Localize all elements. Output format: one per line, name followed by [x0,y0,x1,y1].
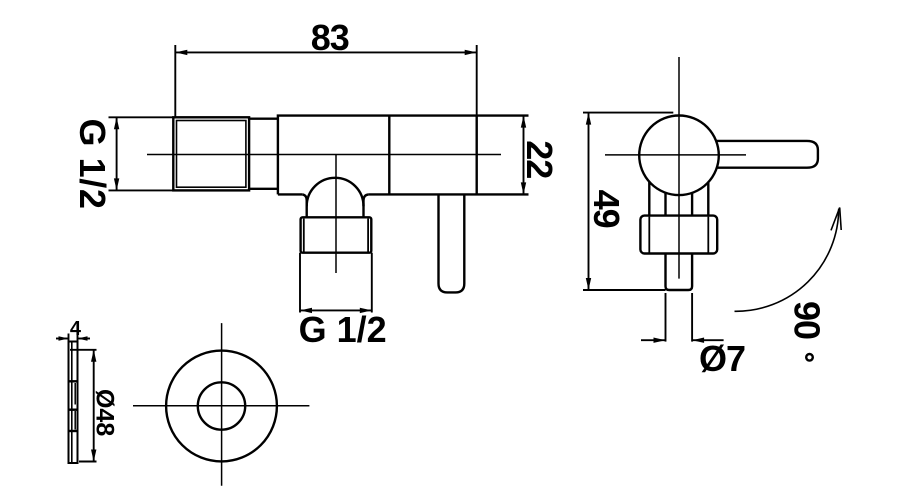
dimension 49: bottom arrowhead [586,278,591,290]
flange front view: outer circle [166,351,277,462]
front view: neck top edge [249,117,278,119]
svg-text:Ø7: Ø7 [699,338,745,379]
side view: nut chamfer line right [707,217,709,253]
dimension 83: left arrowhead [175,50,187,55]
dimension 22: bottom arrowhead [521,182,526,194]
svg-text:G 1/2: G 1/2 [299,309,387,350]
front view: nut inner side line left [303,219,305,252]
dimension 49: top extension line [583,112,673,114]
side view: horizontal centerline [605,154,746,156]
dimension Ø48: bottom extension line [79,461,97,463]
front view: dome arc of lower branch [307,178,364,206]
dimension Ø48: top arrowhead [91,350,96,362]
degree symbol circle [806,354,813,361]
dimension 83: left extension line [174,45,176,117]
dimension Ø7: left dimension segment [641,339,666,341]
dimension 22: dimension line [523,116,525,195]
svg-text:4: 4 [70,318,82,340]
flange front view: inner circle [198,382,245,429]
front view: threaded inlet block inner rect [177,121,246,188]
front view: body bottom edge right segment + 22 extension [369,193,529,195]
flange front view: horizontal centerline [133,405,309,407]
svg-text:49: 49 [586,190,627,228]
side view: nut chamfer line left [648,217,650,253]
dimension 83: dimension line [175,51,476,53]
dimension 4: left arrowhead [59,336,69,341]
front view: threaded inlet block outer rect [173,117,249,190]
90 degree swing arc [735,209,839,312]
side view: outlet pipe lower [666,254,693,291]
side view: pipe upper right [691,193,693,216]
dimension G1/2 bottom: dimension line [300,309,372,311]
svg-text:G 1/2: G 1/2 [72,118,113,209]
front view: neck bottom edge [249,188,278,190]
dimension G1/2 bottom: right extension line [371,253,373,313]
dimension 4: right arrowhead [78,336,88,341]
front view: main body left+top+right outline [278,116,529,195]
flange front view: vertical centerline [221,323,223,486]
flange profile middle inner line 1 [74,383,76,405]
dimension 49: dimension line [588,113,590,290]
svg-text:22: 22 [519,140,560,178]
dimension G1/2 bottom: left arrowhead [300,308,312,313]
side view: handle lever [716,141,818,168]
svg-text:90: 90 [786,301,827,339]
flange profile tick 1 [69,380,78,382]
svg-text:83: 83 [311,17,349,58]
front view: body divider line [388,116,390,195]
dimension Ø48: bottom arrowhead [91,450,96,462]
dimension 22: top arrowhead [521,116,526,128]
front view: lower branch nut [301,217,372,252]
dimension G1/2 bottom: left extension line [299,253,301,313]
dimension G1/2 left: top extension line [109,116,174,118]
front view: horizontal centerline [147,154,501,156]
dimension G1/2 left: bottom extension line [109,189,174,191]
side view: valve body circle [639,116,719,196]
dimension Ø7: left extension line [665,293,667,342]
side view: stem outer left [648,182,650,216]
dimension 4: right stub extension [77,334,79,343]
dimension Ø7: right dimension segment [692,339,724,341]
front view: dome right side + fillet [364,194,369,217]
dimension 4: right segment [78,338,91,340]
flange profile inner vertical line [71,343,73,463]
dimension 49: bottom extension line [583,289,666,291]
dimension 83: right extension line [476,45,478,116]
flange profile tick 2 [69,409,78,411]
front view: branch vertical centerline [335,155,337,274]
dimension Ø7: right arrowhead [692,338,704,343]
dimension G1/2 left: top arrowhead [114,117,119,129]
flange profile tick 3 [69,430,78,432]
flange profile middle inner line 2 [74,411,76,430]
front view: outlet pipe [439,194,465,292]
side view: pipe upper left [664,193,666,216]
dimension 83: right arrowhead [465,50,477,55]
dimension 4: left segment [56,338,69,340]
dimension G1/2 left: dimension line [116,117,118,190]
side view: vertical centerline [678,57,680,279]
dimension 49: top arrowhead [586,113,591,125]
front view: nut inner side line right [367,219,369,252]
dimension Ø48: dimension line [93,350,95,462]
dimension Ø7: right extension line [691,293,693,342]
dimension 4: left stub extension [68,334,70,343]
dimension Ø48: top extension line [70,349,97,351]
front view: dome left side + fillet [302,194,306,217]
side view: stem outer right [707,182,709,215]
flange profile outer [69,342,78,464]
dimension G1/2 left: bottom arrowhead [114,178,119,190]
dimension G1/2 bottom: right arrowhead [360,308,372,313]
90 degree arc arrowhead [831,208,841,231]
svg-text:Ø48: Ø48 [91,389,119,436]
front view: body bottom edge left segment [278,193,302,195]
side view: nut [640,216,717,254]
dimension Ø7: left arrowhead [654,338,666,343]
